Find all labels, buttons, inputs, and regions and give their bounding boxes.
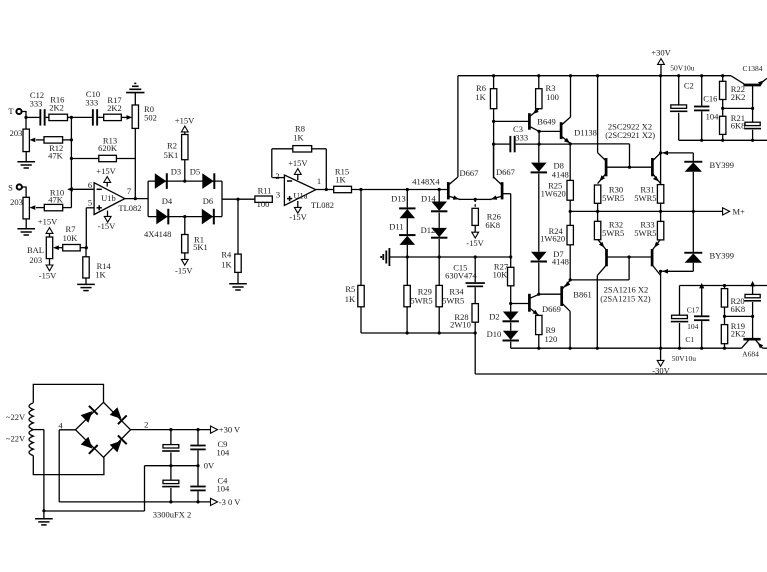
svg-text:2K2: 2K2 bbox=[731, 92, 746, 102]
diode D13 bbox=[391, 190, 415, 219]
diode D4 bbox=[156, 196, 173, 224]
node M+ output bbox=[723, 207, 745, 217]
wire wiper arrow into R0 bbox=[121, 115, 132, 120]
power +30V out bbox=[211, 425, 242, 435]
capacitor C9 bbox=[190, 430, 230, 466]
svg-text:D667: D667 bbox=[460, 168, 479, 178]
transistor Q6 2SC2922 (right) bbox=[652, 153, 660, 184]
bridge rectifier bbox=[76, 402, 131, 457]
svg-text:D4: D4 bbox=[162, 196, 173, 206]
svg-text:D12: D12 bbox=[421, 225, 436, 235]
svg-text:D13: D13 bbox=[391, 194, 406, 204]
svg-text:1W620: 1W620 bbox=[540, 234, 565, 244]
svg-text:-30V: -30V bbox=[652, 366, 670, 376]
power -30V out bbox=[211, 497, 242, 507]
capacitor C20 bbox=[744, 281, 761, 317]
diode BY399 (top) bbox=[662, 151, 734, 212]
node M+ left bbox=[596, 210, 662, 213]
bridge diode top-left bbox=[81, 406, 98, 423]
svg-text:S: S bbox=[8, 183, 13, 193]
resistor R2 bbox=[164, 115, 195, 182]
svg-text:203: 203 bbox=[10, 128, 23, 138]
wire center tap bbox=[33, 430, 45, 519]
svg-text:5K1: 5K1 bbox=[193, 242, 208, 252]
svg-text:100: 100 bbox=[546, 92, 559, 102]
svg-text:D669: D669 bbox=[542, 304, 561, 314]
svg-text:D1138: D1138 bbox=[574, 127, 597, 137]
wire M+ line bbox=[570, 210, 722, 213]
svg-text:2: 2 bbox=[144, 419, 148, 429]
potentiometer R0 bbox=[132, 104, 157, 128]
node 4 bbox=[58, 420, 75, 502]
transistor C1384 bbox=[731, 64, 767, 109]
svg-text:~22V: ~22V bbox=[6, 433, 26, 443]
svg-text:0V: 0V bbox=[204, 460, 215, 470]
wire bottom bus bbox=[361, 331, 477, 334]
capacitor 3300u (bottom) bbox=[162, 466, 179, 502]
resistor R7 bbox=[53, 224, 86, 251]
capacitor C17 bbox=[671, 305, 700, 348]
resistor R4 bbox=[221, 199, 241, 272]
diode D14 bbox=[421, 190, 447, 213]
bridge diode top-right bbox=[110, 407, 127, 424]
ground under R4 bbox=[229, 272, 247, 290]
wire U1a output bbox=[316, 188, 334, 191]
svg-text:T: T bbox=[8, 106, 14, 116]
wire +V rail bbox=[458, 74, 731, 77]
transistor D669 bbox=[529, 294, 561, 316]
svg-text:BAL: BAL bbox=[27, 245, 44, 255]
node BY399 bottom junction bbox=[659, 270, 662, 273]
ground (signal) left of clamp bbox=[381, 248, 389, 266]
node S input bbox=[8, 183, 26, 198]
svg-text:R11: R11 bbox=[258, 186, 272, 196]
svg-text:100: 100 bbox=[257, 199, 270, 209]
svg-text:333: 333 bbox=[30, 98, 43, 108]
resistor R21 bbox=[720, 107, 746, 142]
svg-text:6K8: 6K8 bbox=[731, 304, 746, 314]
transistor D667 (left) bbox=[448, 76, 478, 200]
wire R6 column bbox=[492, 121, 495, 178]
svg-text:104: 104 bbox=[687, 322, 699, 331]
node BY399 top junction bbox=[659, 151, 662, 154]
svg-text:1K: 1K bbox=[95, 269, 106, 279]
svg-text:4148: 4148 bbox=[552, 256, 569, 266]
svg-text:A684: A684 bbox=[742, 350, 759, 359]
wire bases bottom pair bbox=[607, 255, 653, 280]
svg-text:5WR5: 5WR5 bbox=[602, 228, 624, 238]
node junction R7 R14 bbox=[85, 246, 88, 249]
wire caps top bus bbox=[680, 283, 767, 315]
svg-text:10K: 10K bbox=[63, 233, 79, 243]
svg-text:50V10u: 50V10u bbox=[670, 64, 694, 73]
svg-text:5: 5 bbox=[88, 198, 92, 208]
svg-text:4148X4: 4148X4 bbox=[412, 176, 440, 186]
svg-text:-15V: -15V bbox=[289, 212, 307, 222]
diode D11 bbox=[389, 218, 415, 257]
resistor R28 bbox=[450, 304, 478, 333]
capacitor C3 bbox=[494, 124, 539, 152]
diode D6 bbox=[202, 196, 215, 224]
wire 0V bbox=[44, 460, 215, 511]
wire +30V column bbox=[660, 76, 662, 185]
resistor R20 bbox=[721, 286, 745, 317]
diode D8 bbox=[531, 144, 569, 180]
svg-text:D667: D667 bbox=[496, 167, 515, 177]
label 3300uFX2 bbox=[153, 510, 192, 520]
transistor Q8 2SA1216 (right) bbox=[652, 240, 661, 348]
svg-text:1K: 1K bbox=[335, 175, 346, 185]
capacitor C15 bbox=[445, 257, 485, 304]
svg-text:203: 203 bbox=[10, 197, 23, 207]
capacitor 3300u (top) bbox=[162, 430, 179, 466]
svg-text:47K: 47K bbox=[48, 150, 64, 160]
svg-text:1: 1 bbox=[317, 176, 321, 186]
capacitor C2 bbox=[670, 76, 694, 141]
svg-text:C1: C1 bbox=[685, 335, 694, 344]
resistor R13 bbox=[70, 136, 136, 162]
svg-text:203: 203 bbox=[29, 255, 42, 265]
capacitor C4 bbox=[190, 466, 230, 502]
svg-text:C17: C17 bbox=[687, 305, 700, 314]
svg-text:2K2: 2K2 bbox=[107, 103, 122, 113]
wire input column bbox=[70, 117, 72, 189]
svg-text:5WR5: 5WR5 bbox=[442, 295, 464, 305]
svg-text:D3: D3 bbox=[171, 167, 181, 177]
svg-text:D5: D5 bbox=[190, 167, 200, 177]
power +30V bbox=[651, 48, 694, 76]
resistor R19 bbox=[721, 315, 745, 348]
svg-text:R5: R5 bbox=[345, 284, 355, 294]
node output junction bbox=[359, 188, 362, 191]
diode D2 bbox=[489, 312, 519, 323]
potentiometer BAL 203 bbox=[27, 216, 58, 280]
svg-text:630V474: 630V474 bbox=[445, 270, 477, 280]
svg-text:620K: 620K bbox=[98, 143, 118, 153]
svg-text:2K2: 2K2 bbox=[49, 102, 64, 112]
svg-text:C1384: C1384 bbox=[742, 64, 762, 73]
diode bridge 4X4148 frame bbox=[148, 181, 222, 217]
ground under S pot bbox=[17, 219, 35, 235]
svg-text:2K2: 2K2 bbox=[731, 328, 746, 338]
transistor D667 (right) bbox=[475, 144, 515, 257]
resistor R11 bbox=[255, 186, 272, 210]
wire ground bus bbox=[389, 255, 510, 258]
svg-text:4148: 4148 bbox=[552, 170, 569, 180]
svg-text:3300uFX 2: 3300uFX 2 bbox=[153, 510, 192, 520]
svg-text:1K: 1K bbox=[475, 92, 486, 102]
svg-text:TL082: TL082 bbox=[311, 200, 334, 210]
svg-text:6K8: 6K8 bbox=[731, 121, 746, 131]
wire pin3 bbox=[276, 189, 280, 199]
resistor R24 bbox=[540, 210, 573, 280]
svg-text:BY399: BY399 bbox=[710, 250, 735, 260]
svg-text:5K1: 5K1 bbox=[164, 150, 179, 160]
svg-text:10K: 10K bbox=[493, 270, 509, 280]
svg-text:D2: D2 bbox=[489, 312, 499, 322]
node B649 collector bbox=[538, 130, 562, 146]
svg-text:50V10u: 50V10u bbox=[672, 354, 696, 363]
wire zobel to bottom rail bbox=[475, 333, 767, 374]
svg-text:+15V: +15V bbox=[175, 115, 195, 125]
bridge diode bottom-left bbox=[81, 437, 98, 454]
resistor R29 bbox=[404, 257, 433, 333]
bridge diode bottom-right bbox=[110, 435, 127, 452]
resistor R14 bbox=[83, 248, 112, 280]
svg-text:M+: M+ bbox=[733, 207, 746, 217]
resistor R10 bbox=[30, 187, 72, 210]
wire R20 R19 node bbox=[725, 315, 755, 318]
label 4148X4 bbox=[412, 176, 440, 186]
svg-text:TL082: TL082 bbox=[118, 203, 141, 213]
resistor R12 bbox=[30, 137, 72, 161]
svg-text:-15V: -15V bbox=[98, 221, 116, 231]
svg-text:B649: B649 bbox=[537, 116, 555, 126]
svg-text:5WR5: 5WR5 bbox=[634, 228, 656, 238]
transistor B649 bbox=[529, 109, 555, 132]
diode BY399 (bottom) bbox=[662, 211, 734, 273]
svg-text:47K: 47K bbox=[48, 194, 64, 204]
diode D10 bbox=[487, 323, 519, 349]
wire y144 node bbox=[539, 142, 629, 167]
label 4X4148 bbox=[144, 229, 171, 239]
wire D669 base bbox=[511, 303, 530, 305]
resistor R27 bbox=[493, 255, 514, 311]
svg-text:(2SA1215 X2): (2SA1215 X2) bbox=[600, 294, 650, 304]
resistor R1 bbox=[175, 215, 208, 276]
wire U1b output bbox=[125, 197, 148, 200]
svg-text:R2: R2 bbox=[167, 141, 177, 151]
node junction R12 bbox=[70, 138, 73, 141]
resistor R6 bbox=[475, 76, 496, 122]
svg-text:D10: D10 bbox=[487, 329, 502, 339]
resistor R25 bbox=[541, 144, 574, 212]
svg-text:502: 502 bbox=[144, 112, 157, 122]
svg-text:1K: 1K bbox=[221, 260, 232, 270]
wire -V rail bbox=[511, 347, 742, 350]
svg-text:D11: D11 bbox=[389, 222, 403, 232]
svg-text:1W620: 1W620 bbox=[541, 189, 566, 199]
transistor A684 bbox=[742, 316, 767, 358]
potentiometer 203 (S) bbox=[10, 197, 29, 219]
svg-text:+30 V: +30 V bbox=[219, 425, 241, 435]
wire pin2 bbox=[272, 171, 284, 181]
transistor B861 bbox=[562, 280, 592, 348]
svg-text:333: 333 bbox=[85, 98, 98, 108]
svg-text:104: 104 bbox=[217, 484, 231, 494]
node top D13 bbox=[406, 188, 409, 191]
diode D7 bbox=[531, 174, 569, 295]
svg-text:-15V: -15V bbox=[175, 266, 193, 276]
svg-text:104: 104 bbox=[706, 112, 720, 122]
wire transformer bottom bbox=[33, 456, 104, 475]
svg-text:6: 6 bbox=[88, 180, 92, 190]
svg-text:5WR5: 5WR5 bbox=[602, 193, 624, 203]
label 50V10u bottom bbox=[672, 354, 696, 363]
wire R22 R21 node bbox=[723, 107, 755, 110]
capacitor C12 bbox=[26, 90, 49, 126]
op-amp U1b bbox=[88, 166, 142, 231]
label 2SA1216 bbox=[600, 284, 650, 303]
node T input bbox=[8, 106, 26, 117]
capacitor C16 bbox=[694, 76, 719, 141]
transistor D1138 bbox=[561, 76, 597, 144]
svg-text:U1b: U1b bbox=[101, 193, 116, 203]
node bases top pair bbox=[628, 166, 631, 169]
transistor Q5 2SC2922 (left) bbox=[598, 76, 607, 184]
svg-text:5WR5: 5WR5 bbox=[410, 295, 432, 305]
svg-text:120: 120 bbox=[545, 334, 558, 344]
resistor R5 bbox=[345, 190, 364, 334]
capacitor C19 bbox=[694, 286, 709, 349]
capacitor C18 bbox=[744, 108, 761, 141]
resistor R34 bbox=[436, 257, 464, 333]
svg-text:6K8: 6K8 bbox=[485, 220, 500, 230]
potentiometer 203 (T) bbox=[10, 128, 30, 152]
node 2 bbox=[144, 419, 148, 429]
resistor R3 bbox=[536, 76, 559, 109]
ground under T pot bbox=[17, 152, 35, 168]
svg-text:-3 0 V: -3 0 V bbox=[219, 497, 241, 507]
svg-text:-15V: -15V bbox=[39, 270, 57, 280]
svg-text:2W10: 2W10 bbox=[450, 320, 471, 330]
wire main signal bbox=[352, 189, 449, 191]
transformer secondary bbox=[6, 384, 104, 455]
svg-text:BY399: BY399 bbox=[710, 160, 735, 170]
wire +30V out bbox=[131, 428, 212, 431]
resistor R31 bbox=[634, 185, 664, 222]
diode D3 bbox=[155, 167, 181, 189]
wire R0 to output node bbox=[134, 128, 136, 198]
op-amp U1a bbox=[284, 158, 334, 222]
svg-text:+30V: +30V bbox=[651, 48, 671, 58]
svg-text:1K: 1K bbox=[345, 294, 356, 304]
svg-text:4X4148: 4X4148 bbox=[144, 229, 171, 239]
node A junction bbox=[70, 116, 73, 119]
resistor R32 bbox=[594, 211, 624, 239]
resistor R9 bbox=[536, 315, 558, 348]
svg-text:+15V: +15V bbox=[38, 216, 58, 226]
svg-text:R4: R4 bbox=[221, 249, 232, 259]
resistor R30 bbox=[594, 185, 624, 212]
svg-text:2: 2 bbox=[275, 171, 279, 181]
resistor R15 bbox=[334, 166, 352, 192]
ground under R14 bbox=[77, 278, 95, 291]
svg-text:-15V: -15V bbox=[466, 238, 484, 248]
ground above R0 bbox=[126, 83, 144, 105]
node top D14 bbox=[438, 188, 441, 191]
wire bridge out bbox=[222, 198, 255, 201]
capacitor C10 bbox=[71, 89, 103, 125]
transistor Q7 2SA1216 (left) bbox=[597, 240, 606, 349]
svg-text:104: 104 bbox=[217, 448, 231, 458]
wire bases top pair bbox=[606, 166, 652, 168]
svg-text:+15V: +15V bbox=[288, 158, 308, 168]
resistor R22 bbox=[720, 76, 746, 109]
power -30V stub bbox=[652, 348, 670, 375]
resistor R33 bbox=[634, 220, 664, 240]
svg-text:333: 333 bbox=[515, 133, 528, 143]
diode D5 bbox=[190, 167, 215, 189]
svg-text:U1a: U1a bbox=[293, 191, 307, 201]
node B649 base bbox=[492, 120, 529, 123]
diode D12 bbox=[421, 213, 448, 257]
svg-text:D14: D14 bbox=[421, 194, 436, 204]
resistor R26 bbox=[466, 198, 501, 248]
resistor R17 bbox=[104, 95, 122, 121]
wire -30V out bbox=[59, 500, 211, 503]
svg-text:7: 7 bbox=[127, 186, 131, 196]
svg-text:B861: B861 bbox=[573, 290, 591, 300]
svg-text:(2SC2921 X2): (2SC2921 X2) bbox=[605, 130, 655, 140]
ground PSU bbox=[35, 519, 53, 525]
svg-text:C2: C2 bbox=[684, 81, 694, 91]
label 2SC2922 bbox=[605, 121, 655, 140]
node D669 collector bbox=[537, 293, 562, 296]
svg-text:~22V: ~22V bbox=[6, 412, 26, 422]
wire bbox=[24, 116, 27, 129]
resistor R16 bbox=[49, 94, 72, 120]
svg-text:1K: 1K bbox=[293, 133, 304, 143]
svg-text:C16: C16 bbox=[703, 93, 717, 103]
svg-text:3: 3 bbox=[276, 189, 280, 199]
wire pin6 arrow bbox=[67, 187, 94, 192]
node B861 emitter bbox=[569, 278, 629, 281]
wire pin5 bbox=[86, 208, 94, 248]
svg-text:5WR5: 5WR5 bbox=[634, 193, 656, 203]
wire caps bottom bus bbox=[679, 139, 767, 142]
resistor R8 feedback bbox=[272, 123, 327, 189]
svg-text:D6: D6 bbox=[203, 196, 213, 206]
svg-text:+15V: +15V bbox=[96, 166, 116, 176]
